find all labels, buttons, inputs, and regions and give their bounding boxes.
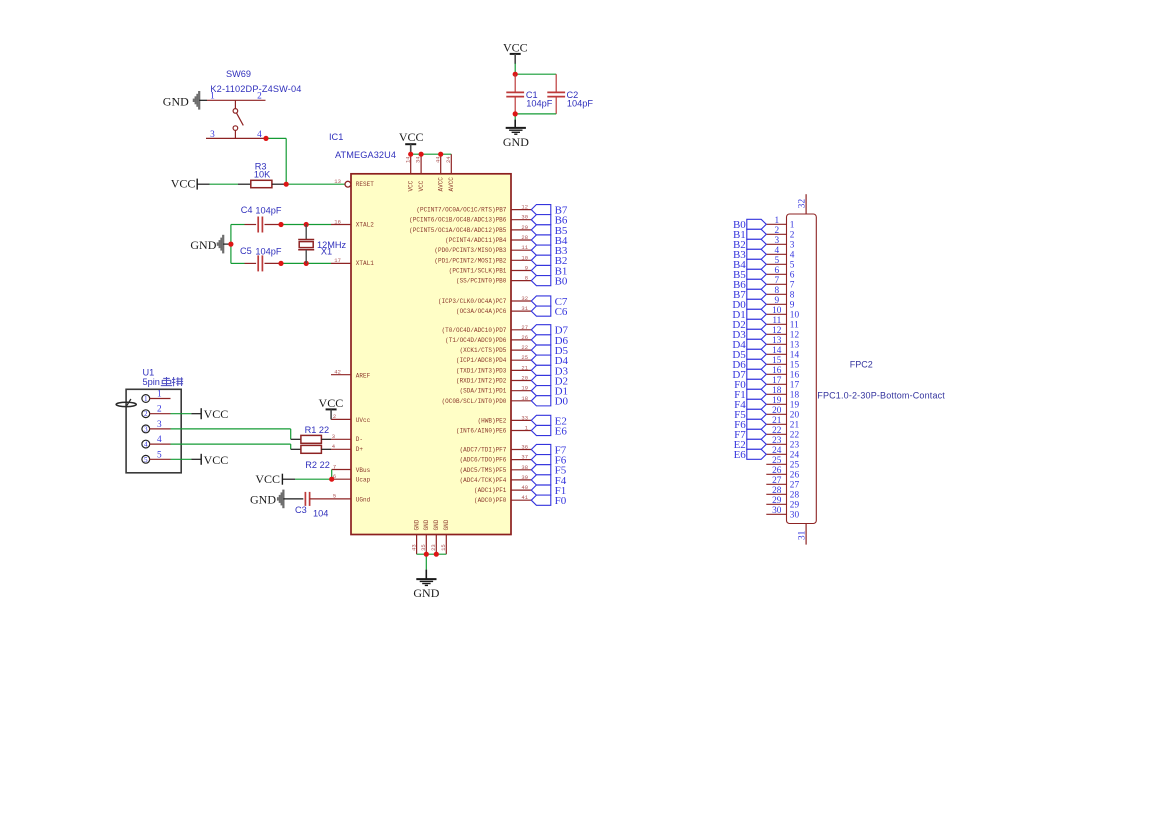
- value 104pF (C1): [526, 98, 552, 108]
- svg-text:GND: GND: [433, 519, 440, 530]
- svg-text:(PCINT5/OC1A/OC4B/ADC12)PB5: (PCINT5/OC1A/OC4B/ADC12)PB5: [409, 227, 507, 234]
- power symbol GND (below IC1): [413, 579, 439, 600]
- pin 5 (FPC2): [766, 256, 795, 271]
- pin PC7 32: [438, 295, 531, 305]
- pin UGnd 5: [331, 493, 371, 504]
- svg-text:37: 37: [521, 454, 528, 461]
- net label F4: [555, 475, 567, 487]
- svg-text:25: 25: [772, 456, 782, 466]
- svg-text:42: 42: [334, 369, 341, 376]
- power symbol VCC (at Ucap): [255, 472, 282, 486]
- value 12MHz: [317, 240, 347, 250]
- net flag B2: [531, 255, 551, 265]
- wire (GND rail below IC1): [417, 554, 447, 579]
- svg-text:2: 2: [333, 413, 336, 420]
- pin VBus 7: [332, 463, 371, 474]
- label C4: [241, 205, 253, 215]
- svg-text:2: 2: [157, 405, 162, 415]
- pin 11 (FPC2): [766, 316, 799, 331]
- svg-text:44: 44: [434, 156, 441, 163]
- svg-text:29: 29: [521, 224, 528, 231]
- svg-text:24: 24: [445, 156, 452, 163]
- svg-text:36: 36: [521, 444, 528, 451]
- pin PB6 30: [409, 214, 531, 224]
- net flag D0 (FPC2): [747, 299, 767, 309]
- svg-text:(PCINT1/SCLK)PB1: (PCINT1/SCLK)PB1: [449, 268, 507, 275]
- svg-text:(XCK1/CTS)PD5: (XCK1/CTS)PD5: [460, 347, 507, 354]
- svg-text:(PD1/PCINT2/MOSI)PB2: (PD1/PCINT2/MOSI)PB2: [434, 257, 506, 264]
- svg-text:6: 6: [774, 266, 779, 276]
- pin 7 (FPC2): [766, 276, 795, 291]
- net label F1 (FPC2): [734, 389, 746, 401]
- net flag B5: [531, 225, 551, 235]
- net flag F0: [531, 495, 551, 505]
- svg-text:R2 22: R2 22: [305, 460, 330, 470]
- net flag B4 (FPC2): [747, 259, 767, 269]
- svg-text:3: 3: [144, 425, 148, 433]
- svg-text:VCC: VCC: [399, 130, 424, 144]
- net label B0: [555, 276, 568, 288]
- wire (VCC to Ucap/VBus): [282, 470, 331, 480]
- net flag E2 (FPC2): [747, 439, 767, 449]
- pin RESET 13: [334, 178, 374, 188]
- net flag D7: [531, 325, 551, 335]
- svg-text:VBus: VBus: [356, 467, 371, 474]
- pin PE6 1: [456, 425, 531, 435]
- svg-text:32: 32: [798, 199, 808, 209]
- net flag F6: [531, 455, 551, 465]
- svg-text:24: 24: [790, 451, 800, 461]
- svg-text:27: 27: [772, 476, 782, 486]
- svg-text:XTAL2: XTAL2: [356, 221, 374, 228]
- net label B2: [555, 255, 568, 267]
- pin GND 15 (bottom): [440, 519, 450, 554]
- pin 5 (U1): [142, 450, 171, 464]
- svg-text:11: 11: [772, 316, 781, 326]
- svg-text:2: 2: [774, 226, 779, 236]
- svg-text:GND: GND: [190, 238, 216, 252]
- svg-text:4: 4: [790, 251, 795, 261]
- svg-text:(ICP3/CLK0/OC4A)PC7: (ICP3/CLK0/OC4A)PC7: [438, 298, 507, 305]
- net label B6: [555, 215, 568, 227]
- net flag F5 (FPC2): [747, 409, 767, 419]
- svg-text:38: 38: [521, 464, 528, 471]
- svg-text:R1 22: R1 22: [305, 425, 330, 435]
- wire (VCC rail above IC1): [411, 153, 452, 155]
- svg-text:FPC1.0-2-30P-Bottom-Contact: FPC1.0-2-30P-Bottom-Contact: [817, 390, 945, 400]
- pin PB0 8: [456, 275, 531, 285]
- net flag D0: [531, 396, 551, 406]
- pin GND 35 (bottom): [420, 519, 430, 554]
- pin PD3 21: [456, 364, 531, 374]
- svg-text:IC1: IC1: [329, 132, 343, 142]
- svg-text:104pF: 104pF: [526, 98, 552, 108]
- svg-text:(PCINT4/ADC11)PB4: (PCINT4/ADC11)PB4: [445, 237, 507, 244]
- net label B3 (FPC2): [733, 249, 746, 261]
- net label D4: [555, 355, 569, 367]
- svg-text:28: 28: [521, 234, 528, 241]
- svg-text:VCC: VCC: [319, 396, 344, 410]
- svg-text:104pF: 104pF: [255, 205, 281, 215]
- pin 15 (FPC2): [766, 356, 799, 371]
- svg-text:AVCC: AVCC: [448, 177, 455, 192]
- svg-text:(T1/OC4D/ADC9)PD6: (T1/OC4D/ADC9)PD6: [445, 337, 507, 344]
- wire (C1/C2 bottom): [515, 114, 556, 128]
- svg-text:5: 5: [157, 450, 162, 460]
- net label E2: [555, 415, 567, 427]
- crystal X1: [298, 225, 314, 264]
- svg-text:24: 24: [772, 446, 782, 456]
- net flag F1: [531, 485, 551, 495]
- pin PD7 27: [442, 324, 532, 334]
- net label F6: [555, 455, 567, 467]
- junction (RESET net): [284, 182, 289, 187]
- svg-text:C6: C6: [555, 306, 568, 318]
- svg-text:1: 1: [157, 390, 162, 400]
- pin PB3 11: [434, 244, 531, 254]
- capacitor C1: [506, 74, 524, 114]
- svg-text:27: 27: [521, 324, 528, 331]
- wire (U1 pin3 to R1): [171, 429, 301, 439]
- svg-text:23: 23: [430, 544, 437, 551]
- pin 32 (FPC2 top): [798, 194, 808, 214]
- net flag D3: [531, 365, 551, 375]
- pin 10 (FPC2): [766, 306, 799, 321]
- svg-text:2: 2: [790, 231, 795, 241]
- capacitor C2: [547, 74, 565, 114]
- net flag F5: [531, 465, 551, 475]
- net flag D3 (FPC2): [747, 329, 767, 339]
- pin D+ 4: [331, 443, 363, 453]
- svg-text:22: 22: [521, 344, 528, 351]
- pin 27 (FPC2): [766, 476, 799, 491]
- svg-text:(RXD1/INT2)PD2: (RXD1/INT2)PD2: [456, 378, 507, 385]
- svg-text:30: 30: [790, 511, 800, 521]
- svg-text:16: 16: [790, 371, 800, 381]
- svg-text:AVCC: AVCC: [438, 177, 445, 192]
- net flag D5 (FPC2): [747, 349, 767, 359]
- connector U1 body: [126, 389, 181, 473]
- svg-text:VCC: VCC: [204, 453, 229, 467]
- pin 28 (FPC2): [766, 486, 799, 501]
- svg-text:1: 1: [144, 395, 148, 403]
- svg-text:3: 3: [157, 420, 162, 430]
- junction (XTAL1 net): [278, 261, 308, 266]
- svg-text:8: 8: [525, 275, 528, 282]
- net flag D2 (FPC2): [747, 319, 767, 329]
- svg-text:(PCINT6/OC1B/OC4B/ADC13)PB6: (PCINT6/OC1B/OC4B/ADC13)PB6: [409, 217, 507, 224]
- svg-text:30: 30: [772, 506, 782, 516]
- label C3: [295, 505, 307, 515]
- pin number 2: [257, 91, 262, 101]
- label C5: [240, 246, 252, 256]
- svg-text:18: 18: [790, 391, 800, 401]
- net label C7: [555, 296, 568, 308]
- wire (GND to C3): [283, 498, 303, 500]
- net flag B1: [531, 265, 551, 275]
- svg-text:X1: X1: [321, 246, 332, 256]
- pin Ucap 6: [332, 473, 371, 484]
- pin number 1: [210, 91, 215, 101]
- wire (R3 to RESET pin): [272, 183, 345, 185]
- power symbol VCC (at R3): [171, 176, 197, 190]
- pin 3 (FPC2): [766, 236, 795, 251]
- net label F4 (FPC2): [734, 399, 746, 411]
- junction (Ucap): [329, 477, 334, 482]
- svg-text:19: 19: [790, 401, 800, 411]
- label R2, value 22: [305, 460, 330, 470]
- pin PF6 37: [460, 454, 532, 464]
- svg-text:26: 26: [772, 466, 782, 476]
- power symbol VCC (U1 pin5): [201, 453, 228, 467]
- svg-text:10: 10: [772, 306, 782, 316]
- svg-text:10: 10: [790, 311, 800, 321]
- pin PB4 28: [445, 234, 531, 244]
- svg-text:4: 4: [157, 435, 162, 445]
- net flag D5: [531, 345, 551, 355]
- net label D5 (FPC2): [732, 349, 746, 361]
- svg-text:21: 21: [790, 421, 800, 431]
- svg-text:20: 20: [772, 406, 782, 416]
- power symbol VCC (U1 pin2): [201, 407, 228, 421]
- svg-text:22: 22: [790, 431, 800, 441]
- net label F7 (FPC2): [734, 429, 746, 441]
- wire (SW69 pin4 to RESET net): [266, 138, 286, 184]
- pin number 3: [210, 130, 215, 140]
- svg-text:104pF: 104pF: [255, 246, 281, 256]
- svg-text:E6: E6: [555, 425, 568, 437]
- net flag B1 (FPC2): [747, 229, 767, 239]
- svg-text:VCC: VCC: [171, 176, 196, 190]
- pin 16 (FPC2): [766, 366, 799, 381]
- net flag F7 (FPC2): [747, 429, 767, 439]
- svg-text:18: 18: [772, 386, 782, 396]
- label SW69: [226, 69, 251, 79]
- pin 9 (FPC2): [766, 296, 795, 311]
- pin AVCC 44: [434, 154, 441, 174]
- svg-text:GND: GND: [503, 135, 529, 149]
- net flag D6: [531, 335, 551, 345]
- net label E6: [555, 425, 568, 437]
- net flag B7 (FPC2): [747, 289, 767, 299]
- pin VCC 34: [415, 154, 422, 174]
- svg-text:(PCINT7/OC0A/OC1C/RTS)PB7: (PCINT7/OC0A/OC1C/RTS)PB7: [416, 207, 506, 214]
- pin 18 (FPC2): [766, 386, 799, 401]
- pin PB7 12: [416, 204, 531, 214]
- net label F1: [555, 485, 567, 497]
- value 104pF (C2): [567, 98, 593, 108]
- pin 19 (FPC2): [766, 396, 799, 411]
- pin PD1 19: [460, 385, 532, 395]
- svg-text:F0: F0: [555, 495, 567, 507]
- svg-text:13: 13: [790, 341, 800, 351]
- pin 20 (FPC2): [766, 406, 799, 421]
- svg-text:(ADC6/TDO)PF6: (ADC6/TDO)PF6: [460, 457, 507, 464]
- pin PF1 40: [474, 484, 531, 494]
- svg-text:(ICP1/ADC8)PD4: (ICP1/ADC8)PD4: [456, 357, 507, 364]
- net label B6 (FPC2): [733, 279, 746, 291]
- pin name VCC (top): [418, 180, 425, 191]
- net label D1 (FPC2): [732, 309, 745, 321]
- pin 1 (FPC2): [766, 216, 795, 231]
- net label B5: [555, 225, 568, 237]
- net label D3 (FPC2): [732, 329, 746, 341]
- svg-text:UGnd: UGnd: [356, 496, 371, 503]
- svg-text:20: 20: [521, 375, 528, 382]
- svg-text:GND: GND: [423, 519, 430, 530]
- pin 17 (FPC2): [766, 376, 799, 391]
- pin PB5 29: [409, 224, 531, 234]
- power symbol GND (at C4/C5): [190, 235, 223, 254]
- value FPC1.0-2-30P-Bottom-Contact: [817, 390, 945, 400]
- pin AVCC 24: [445, 154, 452, 174]
- power symbol VCC (at UVcc): [319, 396, 344, 420]
- net flag D7 (FPC2): [747, 369, 767, 379]
- pin PD6 26: [445, 334, 531, 344]
- power symbol GND (at C3): [250, 490, 283, 509]
- svg-text:21: 21: [772, 416, 782, 426]
- svg-text:34: 34: [415, 156, 422, 163]
- resistor R1: [301, 435, 322, 443]
- net label E2 (FPC2): [734, 439, 746, 451]
- net label D1: [555, 386, 568, 398]
- svg-text:(HWB)PE2: (HWB)PE2: [478, 417, 507, 424]
- label C2: [567, 90, 579, 100]
- ic U1 body (IC1 ATMEGA32U4): [351, 174, 511, 535]
- net label D5: [555, 345, 569, 357]
- net label D7 (FPC2): [732, 369, 746, 381]
- net label B4: [555, 235, 568, 247]
- svg-text:18: 18: [521, 395, 528, 402]
- svg-text:23: 23: [772, 436, 782, 446]
- svg-text:2: 2: [144, 410, 148, 418]
- svg-text:UVcc: UVcc: [356, 417, 371, 424]
- pin 14 (FPC2): [766, 346, 799, 361]
- resistor R3: [251, 180, 272, 187]
- svg-text:31: 31: [798, 530, 808, 540]
- net flag E6 (FPC2): [747, 449, 767, 459]
- svg-text:7: 7: [774, 276, 779, 286]
- net label F5 (FPC2): [734, 409, 746, 421]
- mounting mark (U1 ellipse): [116, 399, 136, 407]
- svg-text:4: 4: [144, 441, 148, 449]
- net flag F0 (FPC2): [747, 379, 767, 389]
- net label D3: [555, 365, 569, 377]
- net flag F4: [531, 475, 551, 485]
- junction (SW69 pin4): [263, 136, 268, 141]
- svg-text:XTAL1: XTAL1: [356, 260, 374, 267]
- svg-text:(OC3A/OC4A)PC6: (OC3A/OC4A)PC6: [456, 308, 507, 315]
- svg-text:GND: GND: [250, 493, 276, 507]
- wire (R2 to D+): [321, 448, 331, 450]
- pin AREF 42: [331, 369, 371, 380]
- net label D0 (FPC2): [732, 299, 746, 311]
- svg-text:3: 3: [210, 130, 215, 140]
- net flag B6 (FPC2): [747, 279, 767, 289]
- svg-text:43: 43: [410, 544, 417, 551]
- svg-text:C4: C4: [241, 205, 253, 215]
- pin PC6 31: [456, 305, 531, 315]
- pin PB2 10: [434, 254, 531, 264]
- label IC1: [329, 132, 343, 142]
- net label B7: [555, 205, 568, 217]
- pin name AVCC (top): [448, 177, 455, 192]
- svg-text:(ADC1)PF1: (ADC1)PF1: [474, 487, 507, 494]
- net flag D2: [531, 375, 551, 385]
- svg-text:VCC: VCC: [204, 407, 229, 421]
- svg-text:27: 27: [790, 481, 800, 491]
- label R3: [255, 162, 267, 172]
- power symbol GND (at SW69): [163, 91, 199, 110]
- svg-text:9: 9: [790, 301, 795, 311]
- svg-text:SW69: SW69: [226, 69, 251, 79]
- svg-text:3: 3: [790, 241, 795, 251]
- net flag C7: [531, 296, 551, 306]
- net flag B2 (FPC2): [747, 239, 767, 249]
- net label D2: [555, 375, 568, 387]
- switch SW69: [206, 100, 266, 138]
- pin D- 3: [331, 433, 363, 443]
- svg-text:39: 39: [521, 474, 528, 481]
- svg-text:12: 12: [521, 204, 528, 211]
- svg-text:4: 4: [774, 246, 779, 256]
- net label D7: [555, 325, 569, 337]
- svg-text:7: 7: [333, 463, 336, 470]
- net label F5: [555, 465, 567, 477]
- svg-text:VCC: VCC: [418, 180, 425, 191]
- pin UVcc 2: [331, 413, 371, 424]
- svg-text:33: 33: [521, 414, 528, 421]
- pin 4 (U1): [142, 435, 171, 449]
- wire (GND to crystal net): [223, 225, 231, 264]
- svg-text:E6: E6: [734, 449, 747, 461]
- net flag F4 (FPC2): [747, 399, 767, 409]
- net flag D1: [531, 386, 551, 396]
- net flag F1 (FPC2): [747, 389, 767, 399]
- pin name VCC (top): [408, 180, 415, 191]
- net label F0: [555, 495, 567, 507]
- pin PD0 18: [442, 395, 532, 405]
- power symbol VCC (above IC1): [399, 130, 424, 154]
- svg-text:5: 5: [790, 261, 795, 271]
- svg-text:(ADC0)PF0: (ADC0)PF0: [474, 497, 507, 504]
- svg-text:16: 16: [334, 218, 341, 225]
- svg-text:31: 31: [521, 305, 528, 312]
- capacitor C3: [305, 492, 331, 506]
- wire (VCC to C1/C2 top): [515, 64, 556, 75]
- pin 4 (FPC2): [766, 246, 795, 261]
- junction (VCC rail): [408, 152, 443, 157]
- junction (GND rail): [424, 552, 439, 557]
- net label D0: [555, 396, 569, 408]
- svg-text:14: 14: [790, 351, 800, 361]
- svg-text:(ADC5/TMS)PF5: (ADC5/TMS)PF5: [460, 467, 507, 474]
- pin 31 (FPC2 bottom): [798, 524, 808, 545]
- svg-text:ATMEGA32U4: ATMEGA32U4: [335, 150, 396, 160]
- pin XTAL1 17: [331, 257, 374, 267]
- svg-text:14: 14: [404, 156, 411, 163]
- pin GND 43 (bottom): [410, 519, 420, 554]
- svg-text:104: 104: [313, 509, 328, 519]
- net flag B0: [531, 276, 551, 286]
- svg-text:12: 12: [790, 331, 800, 341]
- pin 1 (U1): [142, 390, 171, 404]
- pin PF0 41: [474, 494, 531, 504]
- pin PB1 9: [449, 265, 532, 275]
- pin 21 (FPC2): [766, 416, 799, 431]
- svg-text:13: 13: [772, 336, 782, 346]
- svg-text:(TXD1/INT3)PD3: (TXD1/INT3)PD3: [456, 367, 507, 374]
